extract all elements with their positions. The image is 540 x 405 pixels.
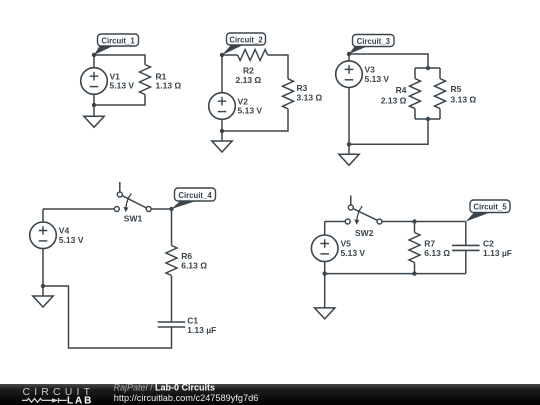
wire node down to R6 bbox=[171, 209, 173, 246]
svg-text:http://circuitlab.com/c247589y: http://circuitlab.com/c247589yfg7d6 bbox=[114, 393, 259, 403]
node bottom junction c4 bbox=[41, 284, 45, 288]
wire V1 top stub bbox=[93, 55, 95, 68]
svg-text:R5: R5 bbox=[451, 84, 462, 94]
svg-text:1.13 Ω: 1.13 Ω bbox=[156, 81, 182, 91]
svg-text:1.13 µF: 1.13 µF bbox=[483, 248, 512, 258]
node label Circuit_3 bbox=[349, 35, 394, 55]
junction parallel top bbox=[426, 66, 430, 70]
wire C1 to ground node bbox=[43, 286, 172, 348]
ground (circuit 1) bbox=[84, 105, 104, 127]
node bottom junction c3 bbox=[347, 142, 351, 146]
node label Circuit_4 bbox=[172, 188, 216, 209]
value label R1 1.13 Ω bbox=[156, 71, 182, 90]
resistor R3 bbox=[283, 79, 294, 109]
value label V4 5.13 V bbox=[59, 226, 84, 245]
wire V5 to SW2 bbox=[325, 221, 346, 223]
svg-text:2.13 Ω: 2.13 Ω bbox=[381, 95, 407, 105]
node bottom junction c2 bbox=[220, 129, 224, 133]
node bottom junction c5 bbox=[323, 271, 327, 275]
svg-text:Circuit_5: Circuit_5 bbox=[473, 203, 507, 212]
svg-text:3.13 Ω: 3.13 Ω bbox=[451, 95, 477, 105]
capacitor C2 bbox=[452, 245, 480, 250]
ground (circuit 4) bbox=[33, 286, 53, 307]
junction R7 top bbox=[412, 219, 416, 223]
wire SW2 to C2 branch bbox=[382, 221, 466, 223]
wire parallel top bar bbox=[415, 67, 440, 69]
svg-text:RajPatel / Lab-0 Circuits: RajPatel / Lab-0 Circuits bbox=[114, 383, 216, 393]
resistor R7 bbox=[409, 233, 420, 263]
voltage source V2 bbox=[209, 93, 236, 120]
wire bottom: R1 to node bbox=[94, 95, 145, 106]
wire top: node to R1 bbox=[94, 55, 145, 65]
svg-text:SW2: SW2 bbox=[355, 228, 374, 238]
value label R5 3.13 Ω bbox=[451, 84, 477, 104]
node label Circuit_5 bbox=[466, 200, 510, 222]
node bottom junction bbox=[92, 103, 96, 107]
voltage source V1 bbox=[81, 68, 108, 95]
svg-text:5.13 V: 5.13 V bbox=[110, 81, 135, 91]
wire V2 bottom stub bbox=[221, 119, 223, 131]
CircuitLab logo bbox=[22, 386, 94, 405]
wire bottom: parallel block to node bbox=[349, 119, 428, 144]
value label R2 2.13 Ω bbox=[236, 66, 262, 86]
wire SW1 to node bbox=[151, 208, 171, 210]
svg-text:3.13 Ω: 3.13 Ω bbox=[297, 93, 323, 103]
svg-text:SW1: SW1 bbox=[124, 214, 143, 224]
wire R5 leads bbox=[439, 68, 441, 119]
value label R7 6.13 Ω bbox=[424, 239, 450, 258]
wire V5 top stub bbox=[324, 222, 326, 236]
resistor R1 bbox=[140, 65, 151, 95]
node label Circuit_2 bbox=[222, 33, 266, 55]
value label V5 5.13 V bbox=[341, 239, 366, 258]
svg-text:R3: R3 bbox=[297, 83, 308, 93]
wire V3 bottom stub bbox=[348, 88, 350, 145]
svg-text:Circuit_4: Circuit_4 bbox=[178, 191, 212, 200]
wire R2 to R3 bbox=[268, 55, 288, 79]
svg-text:Circuit_1: Circuit_1 bbox=[101, 36, 135, 45]
wire C2 bottom lead bbox=[465, 250, 467, 273]
node top junction c3 bbox=[347, 52, 351, 56]
voltage source V3 bbox=[336, 61, 363, 88]
wire parallel bottom bar bbox=[415, 118, 440, 120]
wire R7 top lead bbox=[414, 222, 416, 233]
switch SW2 bbox=[345, 196, 382, 225]
switch SW1 bbox=[114, 182, 151, 212]
svg-text:R4: R4 bbox=[396, 85, 407, 95]
voltage source V5 bbox=[311, 235, 338, 262]
svg-text:5.13 V: 5.13 V bbox=[59, 235, 84, 245]
wire bottom rail c5 bbox=[325, 273, 466, 275]
voltage source V4 bbox=[30, 222, 57, 249]
value label R3 3.13 Ω bbox=[297, 83, 323, 103]
wire top: node to parallel block bbox=[349, 54, 428, 68]
junction parallel bottom bbox=[426, 117, 430, 121]
ground (circuit 2) bbox=[212, 131, 232, 152]
svg-text:6.13 Ω: 6.13 Ω bbox=[424, 248, 450, 258]
value label C2 1.13 µF bbox=[483, 239, 512, 258]
node top junction bbox=[92, 53, 96, 57]
wire V4 bottom stub bbox=[42, 249, 44, 286]
svg-text:5.13 V: 5.13 V bbox=[238, 106, 263, 116]
value label V2 5.13 V bbox=[238, 96, 263, 115]
wire node to R2 bbox=[222, 54, 238, 56]
svg-text:Circuit_2: Circuit_2 bbox=[229, 35, 263, 44]
wire R4 leads bbox=[414, 68, 416, 119]
svg-text:5.13 V: 5.13 V bbox=[341, 248, 366, 258]
value label V1 5.13 V bbox=[110, 71, 135, 90]
wire V4 top stub bbox=[42, 209, 44, 222]
wire R7 bottom lead bbox=[414, 263, 416, 274]
ground (circuit 5) bbox=[315, 274, 335, 319]
svg-text:2.13 Ω: 2.13 Ω bbox=[236, 75, 262, 85]
value label R6 6.13 Ω bbox=[181, 251, 207, 270]
resistor R2 bbox=[238, 50, 268, 61]
wire V2 top stub bbox=[221, 55, 223, 93]
ground (circuit 3) bbox=[339, 144, 359, 165]
wire V4 to SW1 bbox=[43, 208, 114, 210]
resistor R4 bbox=[410, 79, 421, 109]
svg-text:Circuit_3: Circuit_3 bbox=[357, 37, 391, 46]
svg-text:5.13 V: 5.13 V bbox=[365, 74, 390, 84]
svg-text:LAB: LAB bbox=[67, 395, 93, 405]
node label Circuit_1 bbox=[94, 34, 139, 55]
svg-text:1.13 µF: 1.13 µF bbox=[187, 325, 216, 335]
capacitor C1 bbox=[158, 322, 186, 327]
node top junction c2 bbox=[220, 53, 224, 57]
value label C1 1.13 µF bbox=[187, 316, 216, 335]
wire V3 top stub bbox=[348, 54, 350, 61]
wire R6 to C1 bbox=[171, 276, 173, 323]
svg-text:R2: R2 bbox=[243, 66, 254, 76]
wire V5 bottom stub bbox=[324, 262, 326, 274]
wire C2 top lead bbox=[465, 222, 467, 246]
wire R3 to bottom node bbox=[222, 109, 288, 131]
svg-text:6.13 Ω: 6.13 Ω bbox=[181, 260, 207, 270]
wire V1 bottom stub bbox=[93, 94, 95, 105]
junction R7 bottom bbox=[412, 271, 416, 275]
value label V3 5.13 V bbox=[365, 64, 390, 83]
resistor R5 bbox=[435, 79, 446, 109]
value label R4 2.13 Ω bbox=[381, 85, 407, 105]
node junction c4 bbox=[169, 207, 173, 211]
resistor R6 bbox=[166, 246, 177, 276]
